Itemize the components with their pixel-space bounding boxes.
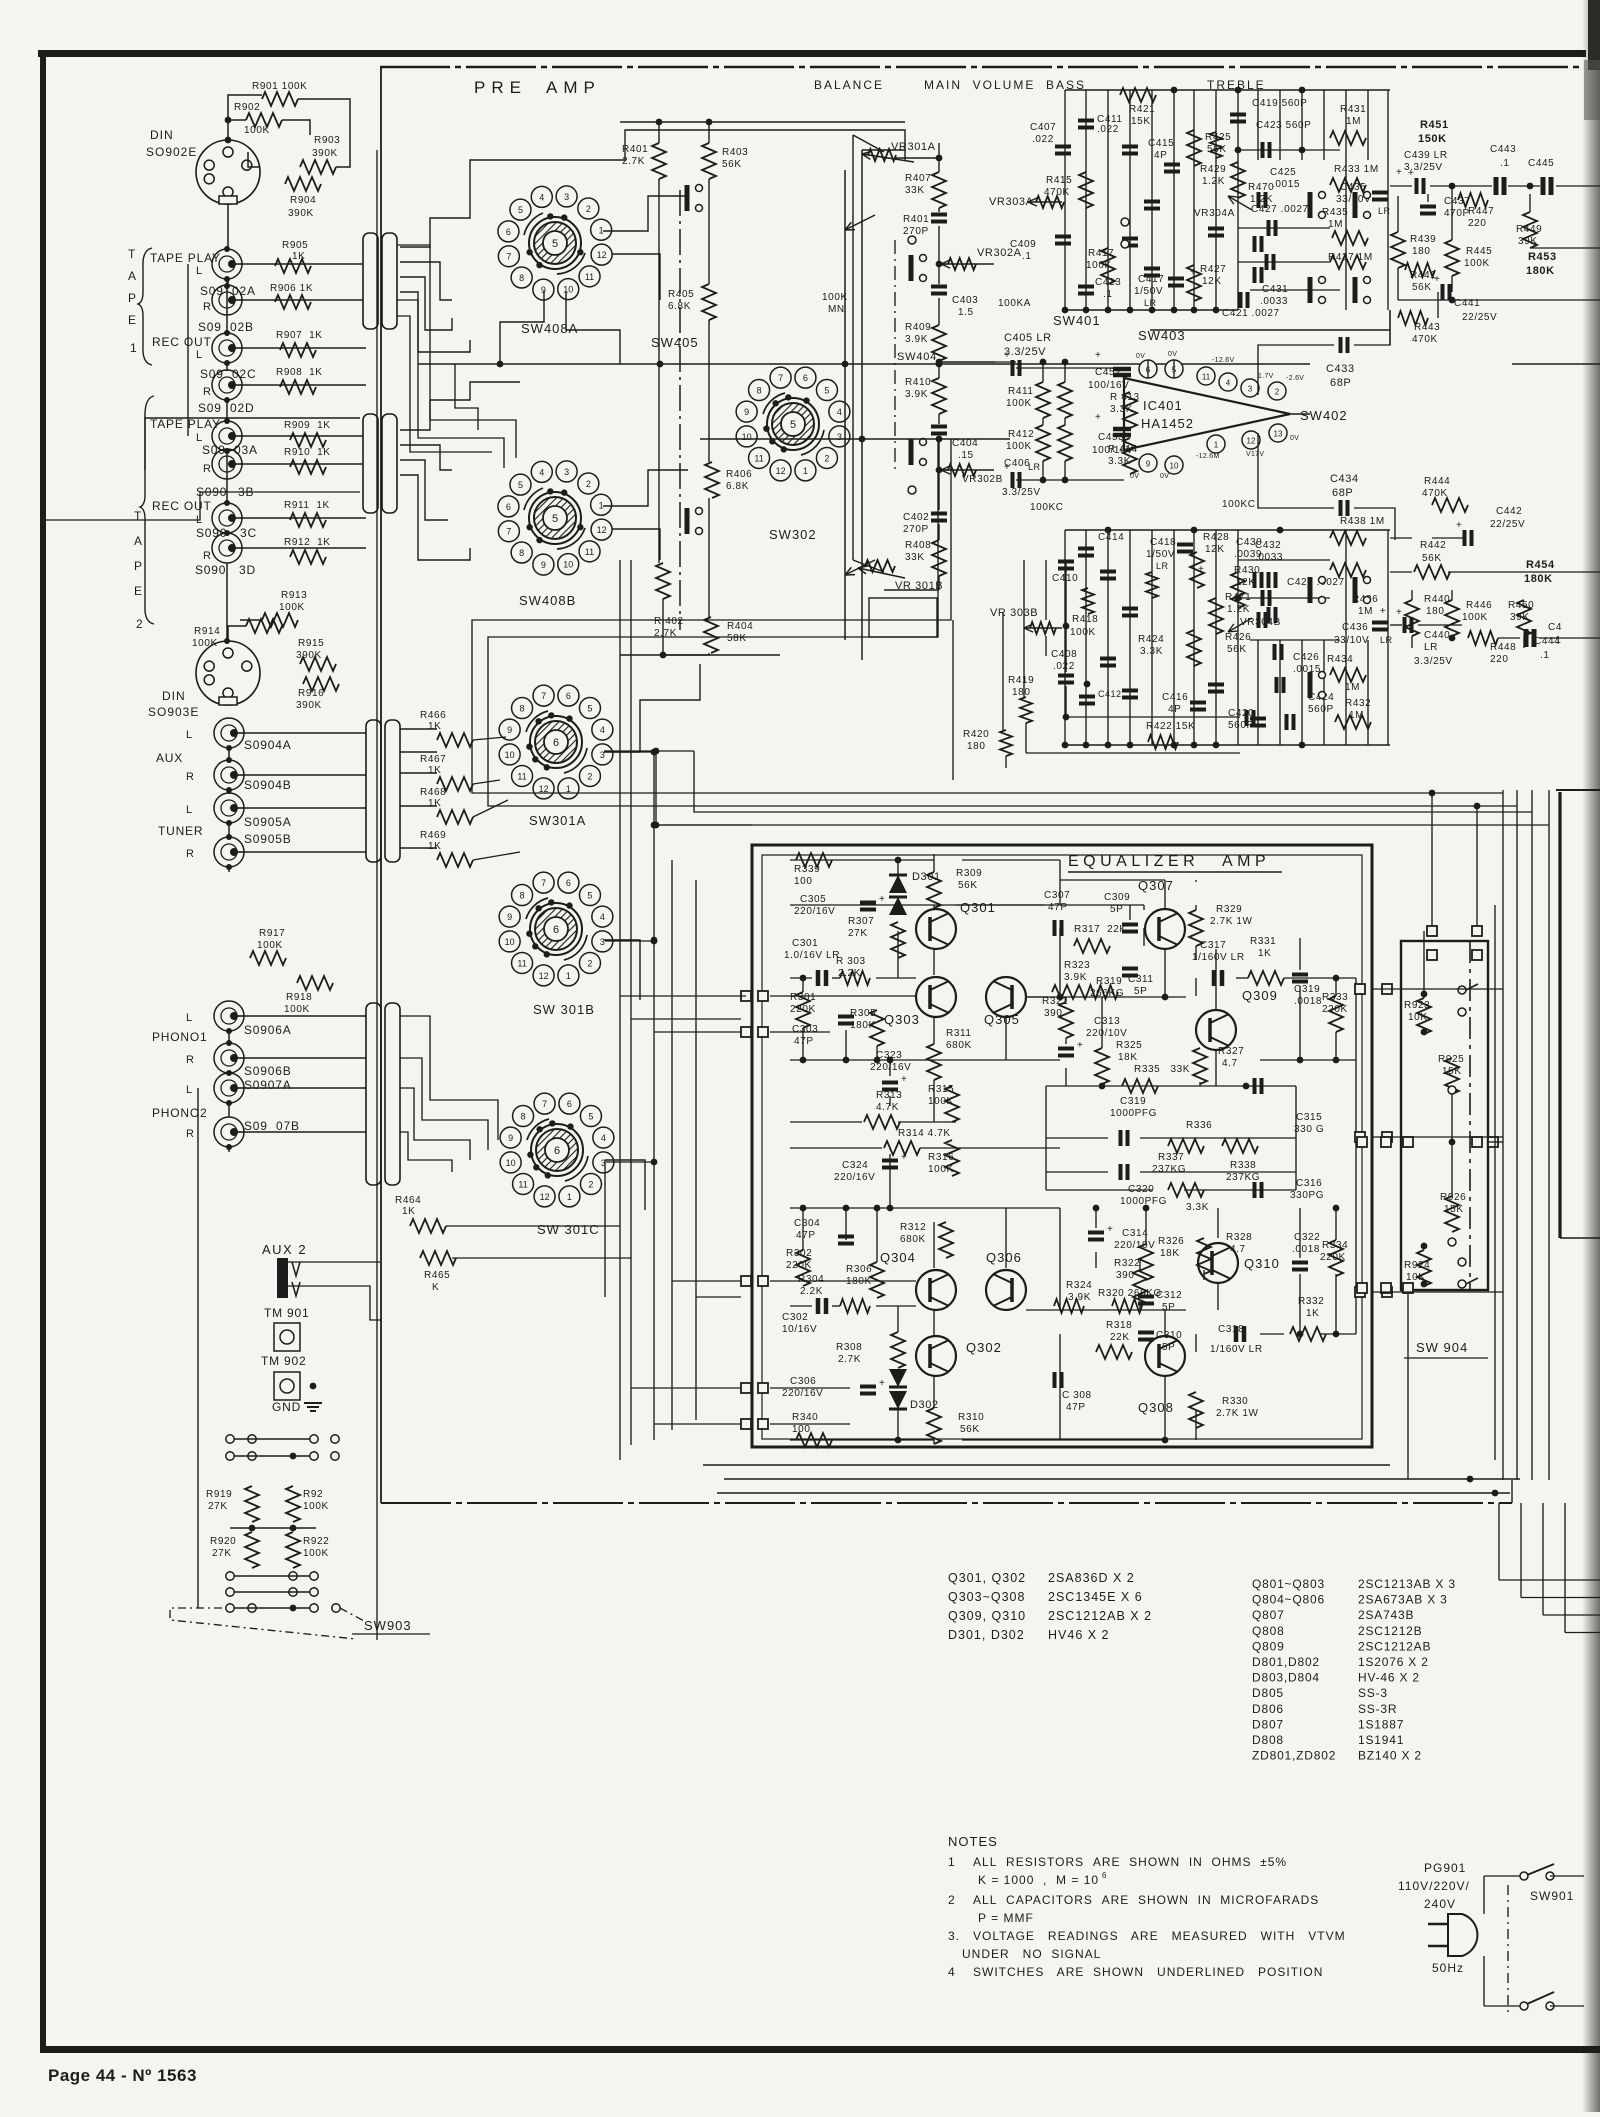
svg-text:R: R (203, 463, 211, 475)
svg-text:180K: 180K (1524, 573, 1553, 585)
svg-text:1.5: 1.5 (958, 307, 974, 318)
svg-text:6: 6 (553, 924, 559, 936)
svg-text:27K: 27K (208, 1501, 228, 1512)
svg-text:PHONO1: PHONO1 (152, 1030, 207, 1044)
svg-text:6: 6 (554, 1145, 560, 1157)
svg-text:V17V: V17V (1246, 451, 1264, 458)
svg-text:C417: C417 (1138, 274, 1164, 285)
svg-text:1 ALL RESISTORS ARE SHOW: 1 ALL RESISTORS ARE SHOWN IN OHMS ±5% (948, 1855, 1287, 1869)
svg-text:.1: .1 (1540, 650, 1550, 661)
svg-text:C304: C304 (794, 1218, 820, 1229)
svg-text:R325: R325 (1116, 1040, 1142, 1051)
svg-text:TAPE PLAY: TAPE PLAY (150, 251, 221, 265)
svg-text:-12.6V: -12.6V (1212, 357, 1234, 364)
svg-text:C324: C324 (842, 1160, 868, 1171)
svg-text:R328: R328 (1226, 1232, 1252, 1243)
svg-text:R907 1K: R907 1K (276, 330, 323, 341)
svg-text:8: 8 (521, 1112, 526, 1122)
svg-text:2SA673AB X 3: 2SA673AB X 3 (1358, 1593, 1448, 1607)
svg-text:C316: C316 (1296, 1178, 1322, 1189)
svg-text:9: 9 (507, 725, 512, 735)
svg-text:AUX 2: AUX 2 (262, 1242, 307, 1257)
svg-text:11: 11 (585, 272, 594, 282)
svg-text:180K: 180K (1526, 265, 1555, 277)
svg-text:22/25V: 22/25V (1462, 312, 1497, 323)
svg-text:C319: C319 (1120, 1096, 1146, 1107)
svg-text:4.7K: 4.7K (876, 1102, 899, 1113)
svg-text:C439 LR: C439 LR (1404, 150, 1448, 161)
svg-text:1: 1 (566, 971, 571, 981)
svg-text:100: 100 (792, 1424, 811, 1435)
svg-text:18K: 18K (1118, 1052, 1138, 1063)
svg-text:390K: 390K (296, 700, 322, 711)
svg-text:560P: 560P (1308, 704, 1334, 715)
svg-text:5: 5 (552, 513, 558, 525)
svg-text:9: 9 (744, 407, 749, 417)
svg-text:100K: 100K (822, 292, 848, 303)
svg-text:C301: C301 (792, 938, 818, 949)
svg-text:R911 1K: R911 1K (284, 500, 330, 511)
svg-text:S0904B: S0904B (244, 778, 292, 792)
svg-text:11: 11 (1202, 373, 1211, 382)
svg-text:1: 1 (1214, 441, 1219, 450)
svg-text:SW408A: SW408A (521, 321, 578, 336)
svg-text:.0015: .0015 (1272, 179, 1300, 190)
svg-text:S0906A: S0906A (244, 1023, 292, 1037)
svg-text:3: 3 (600, 937, 605, 947)
svg-text:S0904A: S0904A (244, 738, 292, 752)
svg-text:5P: 5P (1162, 1302, 1175, 1313)
svg-text:R401: R401 (622, 144, 648, 155)
svg-text:1000PFG: 1000PFG (1120, 1196, 1167, 1207)
svg-text:5: 5 (518, 480, 523, 490)
svg-text:11: 11 (518, 1179, 527, 1189)
svg-text:R412: R412 (1008, 429, 1034, 440)
svg-text:VR303A: VR303A (989, 196, 1034, 208)
svg-text:330PG: 330PG (1290, 1190, 1324, 1201)
svg-text:2: 2 (588, 1179, 593, 1189)
svg-text:R: R (186, 848, 194, 860)
svg-text:220: 220 (1468, 218, 1487, 229)
svg-text:EQUALIZER: EQUALIZER (1068, 853, 1199, 870)
svg-text:220/16V: 220/16V (782, 1388, 823, 1399)
svg-text:390K: 390K (288, 208, 314, 219)
svg-text:+: + (1396, 167, 1402, 178)
svg-text:PHONO2: PHONO2 (152, 1106, 207, 1120)
svg-text:SO902E: SO902E (146, 145, 197, 159)
svg-text:2 ALL CAPACITORS ARE SHO: 2 ALL CAPACITORS ARE SHOWN IN MICROFARAD… (948, 1893, 1319, 1907)
svg-text:K = 1000 , M = 10: K = 1000 , M = 10 (978, 1873, 1099, 1887)
svg-text:270P: 270P (903, 226, 929, 237)
svg-text:3.3/25V: 3.3/25V (1414, 656, 1453, 667)
svg-text:R431: R431 (1340, 104, 1366, 115)
svg-text:.0015: .0015 (1293, 664, 1321, 675)
svg-text:11: 11 (585, 547, 594, 557)
svg-text:VR304B: VR304B (1240, 617, 1281, 628)
svg-text:R433 1M: R433 1M (1334, 164, 1379, 175)
svg-text:3.3/25V: 3.3/25V (1002, 487, 1041, 498)
svg-text:7: 7 (778, 373, 783, 383)
svg-text:Q303: Q303 (884, 1012, 920, 1027)
svg-text:C409: C409 (1010, 239, 1036, 250)
svg-text:R401: R401 (903, 214, 929, 225)
svg-text:6: 6 (566, 691, 571, 701)
svg-text:SW403: SW403 (1138, 328, 1186, 343)
svg-text:1000PFG: 1000PFG (1110, 1108, 1157, 1119)
svg-text:2: 2 (586, 479, 591, 489)
svg-text:Page 44 - Nº 1563: Page 44 - Nº 1563 (48, 2066, 197, 2085)
svg-text:6: 6 (803, 373, 808, 383)
svg-text:R: R (203, 550, 211, 562)
svg-text:R404: R404 (727, 621, 753, 632)
svg-text:R403: R403 (722, 147, 748, 158)
svg-text:+: + (1004, 462, 1010, 473)
svg-text:1K: 1K (428, 798, 441, 809)
svg-text:560P: 560P (1228, 720, 1254, 731)
svg-text:T: T (128, 247, 136, 261)
svg-text:SW 904: SW 904 (1416, 1340, 1468, 1355)
svg-text:1M: 1M (1346, 116, 1361, 127)
svg-text:ZD801,ZD802: ZD801,ZD802 (1252, 1749, 1336, 1763)
svg-text:6: 6 (553, 737, 559, 749)
svg-text:+: + (1095, 350, 1101, 361)
svg-text:27K: 27K (848, 928, 868, 939)
svg-text:SW405: SW405 (651, 335, 699, 350)
svg-text:R918: R918 (286, 992, 312, 1003)
svg-text:C302: C302 (782, 1312, 808, 1323)
svg-text:T: T (134, 509, 142, 523)
svg-text:2SC1213AB X 3: 2SC1213AB X 3 (1358, 1577, 1456, 1591)
svg-text:220/10V: 220/10V (1114, 1240, 1155, 1251)
svg-text:2.7K: 2.7K (622, 156, 645, 167)
svg-text:02B: 02B (230, 320, 254, 334)
svg-text:56K: 56K (958, 880, 978, 891)
svg-text:D805: D805 (1252, 1686, 1284, 1700)
svg-text:P: P (128, 291, 136, 305)
svg-text:100K: 100K (303, 1501, 329, 1512)
svg-text:R469: R469 (420, 830, 446, 841)
svg-text:6: 6 (567, 1099, 572, 1109)
svg-text:150K: 150K (1418, 133, 1447, 145)
svg-text:02A: 02A (232, 284, 256, 298)
svg-text:C443: C443 (1490, 144, 1516, 155)
svg-text:R340: R340 (792, 1412, 818, 1423)
svg-text:IC401: IC401 (1143, 398, 1183, 413)
svg-text:R313: R313 (876, 1090, 902, 1101)
svg-text:R338: R338 (1230, 1160, 1256, 1171)
svg-text:180: 180 (1012, 687, 1031, 698)
svg-text:S09: S09 (200, 367, 224, 381)
svg-text:1K: 1K (428, 765, 441, 776)
svg-text:5: 5 (518, 205, 523, 215)
svg-text:100K: 100K (257, 940, 283, 951)
svg-text:8: 8 (757, 386, 762, 396)
svg-text:100K: 100K (1464, 258, 1490, 269)
svg-text:1: 1 (130, 341, 137, 355)
svg-text:SW 301C: SW 301C (537, 1222, 600, 1237)
svg-text:R915: R915 (298, 638, 324, 649)
svg-text:C426: C426 (1293, 652, 1319, 663)
svg-text:+: + (1077, 1040, 1083, 1051)
svg-text:S0905B: S0905B (244, 832, 292, 846)
svg-text:C442: C442 (1496, 506, 1522, 517)
svg-text:+: + (879, 1378, 885, 1389)
svg-text:+: + (901, 1152, 907, 1163)
svg-text:6: 6 (506, 502, 511, 512)
svg-text:+: + (1396, 607, 1402, 618)
svg-text:R424: R424 (1138, 634, 1164, 645)
svg-text:P: P (134, 559, 142, 573)
svg-text:7: 7 (541, 878, 546, 888)
svg-text:237KG: 237KG (1152, 1164, 1186, 1175)
svg-text:1S1941: 1S1941 (1358, 1733, 1404, 1747)
svg-text:R464: R464 (395, 1195, 421, 1206)
svg-text:R429: R429 (1200, 164, 1226, 175)
svg-text:VR304A: VR304A (1194, 208, 1235, 219)
svg-text:220/16V: 220/16V (834, 1172, 875, 1183)
svg-text:SO903E: SO903E (148, 705, 199, 719)
svg-text:S0905A: S0905A (244, 815, 292, 829)
svg-text:LR: LR (1378, 206, 1391, 216)
svg-text:P = MMF: P = MMF (978, 1911, 1034, 1925)
svg-text:+: + (1095, 412, 1101, 423)
svg-text:C4: C4 (1548, 622, 1562, 633)
svg-text:680K: 680K (900, 1234, 926, 1245)
svg-text:4.7: 4.7 (1222, 1058, 1238, 1069)
svg-text:Q808: Q808 (1252, 1624, 1285, 1638)
svg-text:22/25V: 22/25V (1490, 519, 1525, 530)
svg-text:2.7K: 2.7K (838, 1354, 861, 1365)
svg-text:C314: C314 (1122, 1228, 1148, 1239)
svg-text:C403: C403 (952, 295, 978, 306)
svg-text:1: 1 (803, 466, 808, 476)
svg-text:NOTES: NOTES (948, 1834, 998, 1849)
svg-text:3D: 3D (239, 563, 256, 577)
svg-text:470K: 470K (1412, 334, 1438, 345)
svg-text:Q306: Q306 (986, 1250, 1022, 1265)
svg-text:4: 4 (539, 467, 544, 477)
svg-text:1M: 1M (1345, 682, 1360, 693)
svg-text:4: 4 (600, 912, 605, 922)
svg-text:1/50V: 1/50V (1146, 549, 1175, 560)
svg-text:REC OUT: REC OUT (152, 499, 212, 513)
svg-text:S090: S090 (195, 563, 226, 577)
svg-text:1/160V LR: 1/160V LR (1192, 952, 1245, 963)
svg-text:R329: R329 (1216, 904, 1242, 915)
svg-text:C435: C435 (1340, 182, 1366, 193)
svg-text:220/16V: 220/16V (794, 906, 835, 917)
svg-text:C322: C322 (1294, 1232, 1320, 1243)
svg-text:R337: R337 (1158, 1152, 1184, 1163)
svg-text:680K: 680K (946, 1040, 972, 1051)
svg-text:TM 901: TM 901 (264, 1306, 309, 1320)
svg-text:A: A (134, 534, 142, 548)
svg-text:12: 12 (597, 250, 607, 260)
svg-text:Q302: Q302 (966, 1340, 1002, 1355)
svg-text:-12.6M: -12.6M (1196, 453, 1220, 460)
svg-text:LR: LR (1424, 642, 1438, 653)
svg-text:R906 1K: R906 1K (270, 283, 313, 294)
svg-text:12K: 12K (1205, 544, 1225, 555)
svg-text:S09 02D: S09 02D (198, 401, 254, 415)
svg-text:SW 301B: SW 301B (533, 1002, 595, 1017)
svg-text:R324: R324 (1066, 1280, 1092, 1291)
svg-text:L: L (186, 1012, 192, 1024)
svg-text:+: + (1004, 350, 1010, 361)
svg-text:7: 7 (506, 252, 511, 262)
svg-text:3.3K: 3.3K (1186, 1202, 1209, 1213)
svg-text:R331: R331 (1250, 936, 1276, 947)
svg-text:R411: R411 (1008, 386, 1034, 397)
svg-text:R: R (186, 1054, 194, 1066)
svg-text:4P: 4P (1168, 704, 1181, 715)
svg-text:4: 4 (539, 192, 544, 202)
svg-text:100K: 100K (1006, 441, 1032, 452)
svg-text:SW402: SW402 (1300, 408, 1348, 423)
svg-text:10/16V: 10/16V (782, 1324, 817, 1335)
svg-text:7: 7 (541, 691, 546, 701)
svg-text:R430: R430 (1234, 565, 1260, 576)
svg-text:.1: .1 (1552, 635, 1562, 646)
svg-text:110V/220V/: 110V/220V/ (1398, 1879, 1470, 1893)
svg-text:SW901: SW901 (1530, 1889, 1574, 1903)
svg-text:R307: R307 (848, 916, 874, 927)
svg-text:2.2K: 2.2K (800, 1286, 823, 1297)
svg-text:33K: 33K (905, 552, 925, 563)
svg-text:R470: R470 (1248, 182, 1274, 193)
svg-text:R312: R312 (900, 1222, 926, 1233)
svg-text:PRE: PRE (474, 78, 527, 97)
svg-text:C319: C319 (1294, 984, 1320, 995)
svg-text:9: 9 (541, 560, 546, 570)
svg-text:0V: 0V (1168, 351, 1177, 358)
svg-text:4P: 4P (1154, 150, 1167, 161)
svg-text:Q309, Q310: Q309, Q310 (948, 1609, 1026, 1623)
svg-text:Q301: Q301 (960, 900, 996, 915)
svg-text:237KG: 237KG (1226, 1172, 1260, 1183)
svg-text:3: 3 (564, 467, 569, 477)
svg-text:MAIN VOLUME BASS: MAIN VOLUME BASS (924, 78, 1086, 92)
svg-text:15K: 15K (1131, 116, 1151, 127)
svg-text:C405 LR: C405 LR (1004, 332, 1052, 344)
svg-text:12: 12 (539, 971, 549, 981)
svg-text:5: 5 (552, 238, 558, 250)
svg-text:10: 10 (505, 937, 515, 947)
svg-text:1/50V: 1/50V (1134, 286, 1163, 297)
svg-text:R443: R443 (1414, 322, 1440, 333)
svg-text:R: R (203, 301, 211, 313)
svg-text:3: 3 (564, 192, 569, 202)
svg-text:SS-3: SS-3 (1358, 1686, 1388, 1700)
svg-text:R901 100K: R901 100K (252, 81, 307, 92)
svg-text:5: 5 (587, 704, 592, 714)
svg-text:C408: C408 (1051, 649, 1077, 660)
svg-text:R922: R922 (303, 1536, 329, 1547)
svg-text:33K: 33K (905, 185, 925, 196)
svg-text:LR: LR (1380, 635, 1393, 645)
svg-text:MN: MN (828, 304, 845, 315)
svg-text:56K: 56K (1412, 282, 1432, 293)
svg-text:C423 560P: C423 560P (1256, 120, 1311, 131)
svg-text:R408: R408 (905, 540, 931, 551)
svg-text:5P: 5P (1134, 986, 1147, 997)
svg-text:+: + (879, 894, 885, 905)
svg-text:C305: C305 (800, 894, 826, 905)
svg-text:C407: C407 (1030, 122, 1056, 133)
svg-text:C315: C315 (1296, 1112, 1322, 1123)
svg-text:.022: .022 (1097, 124, 1119, 135)
svg-text:C416: C416 (1162, 692, 1188, 703)
svg-text:R926: R926 (1440, 1192, 1466, 1203)
svg-text:220: 220 (1490, 654, 1509, 665)
svg-text:.1: .1 (1022, 251, 1032, 262)
svg-text:HV46 X 2: HV46 X 2 (1048, 1628, 1110, 1642)
svg-text:SW401: SW401 (1053, 313, 1101, 328)
svg-text:2: 2 (136, 617, 143, 631)
svg-text:56K: 56K (1422, 553, 1442, 564)
svg-text:100KC: 100KC (1030, 502, 1064, 513)
svg-text:180: 180 (1412, 246, 1431, 257)
svg-text:SW302: SW302 (769, 527, 817, 542)
svg-text:HA1452: HA1452 (1141, 416, 1194, 431)
svg-text:1.7V: 1.7V (1258, 373, 1274, 380)
svg-text:BALANCE: BALANCE (814, 78, 884, 92)
svg-text:SW301A: SW301A (529, 813, 586, 828)
svg-text:2SC1212AB X 2: 2SC1212AB X 2 (1048, 1609, 1152, 1623)
svg-text:R448: R448 (1490, 642, 1516, 653)
svg-text:Q310: Q310 (1244, 1256, 1280, 1271)
svg-text:3.9K: 3.9K (905, 334, 928, 345)
svg-text:02C: 02C (232, 367, 256, 381)
svg-text:C309: C309 (1104, 892, 1130, 903)
svg-text:470P: 470P (1444, 208, 1470, 219)
svg-text:2SA743B: 2SA743B (1358, 1608, 1414, 1622)
svg-text:L: L (186, 804, 192, 816)
svg-text:100K: 100K (1070, 627, 1096, 638)
svg-text:Q309: Q309 (1242, 988, 1278, 1003)
svg-text:C412: C412 (1098, 689, 1122, 699)
svg-text:33/10V: 33/10V (1334, 635, 1369, 646)
svg-text:C433: C433 (1326, 363, 1355, 375)
svg-text:5: 5 (790, 419, 796, 431)
svg-text:R444: R444 (1424, 476, 1450, 487)
svg-text:Q804~Q806: Q804~Q806 (1252, 1593, 1325, 1607)
svg-text:+: + (901, 1074, 907, 1085)
svg-text:180: 180 (967, 741, 986, 752)
svg-text:12: 12 (1247, 437, 1256, 446)
svg-text:220/10V: 220/10V (1086, 1028, 1127, 1039)
svg-text:C419 560P: C419 560P (1252, 98, 1307, 109)
svg-text:R310: R310 (958, 1412, 984, 1423)
svg-text:330 G: 330 G (1294, 1124, 1324, 1135)
svg-text:L: L (196, 349, 202, 361)
svg-text:2SC1212AB: 2SC1212AB (1358, 1639, 1431, 1653)
svg-text:R332: R332 (1298, 1296, 1324, 1307)
svg-text:6: 6 (566, 878, 571, 888)
svg-text:.0018: .0018 (1292, 1244, 1320, 1255)
svg-text:100K: 100K (1462, 612, 1488, 623)
svg-text:LR: LR (1028, 462, 1041, 472)
svg-text:68P: 68P (1332, 487, 1353, 499)
svg-text:R: R (186, 771, 194, 783)
svg-text:HV-46 X 2: HV-46 X 2 (1358, 1671, 1420, 1685)
svg-text:R446: R446 (1466, 600, 1492, 611)
svg-text:68P: 68P (1330, 377, 1351, 389)
svg-text:12: 12 (776, 466, 786, 476)
svg-text:R417: R417 (1088, 248, 1114, 259)
svg-text:R: R (186, 1128, 194, 1140)
svg-text:AUX: AUX (156, 751, 183, 765)
